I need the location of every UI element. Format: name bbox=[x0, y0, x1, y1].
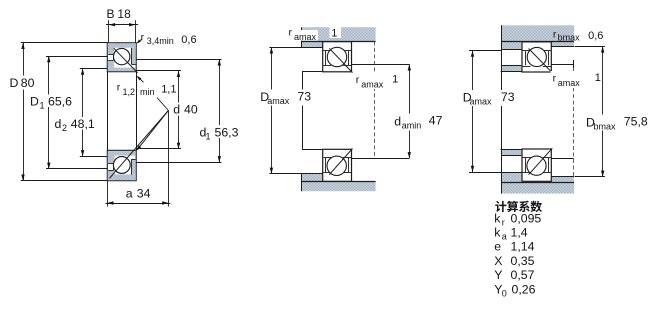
svg-text:B: B bbox=[107, 7, 115, 21]
label d amin 47 bbox=[392, 114, 443, 131]
housing shoulder top bbox=[501, 41, 521, 49]
Db step edge top bbox=[551, 46, 574, 48]
Db top extension bbox=[575, 46, 605, 48]
housing bore line bottom bbox=[501, 182, 574, 184]
ra reference line top bbox=[551, 64, 573, 66]
svg-text:1: 1 bbox=[206, 132, 211, 142]
ball (top) bbox=[114, 48, 130, 64]
svg-text:1: 1 bbox=[392, 73, 398, 85]
svg-text:56,3: 56,3 bbox=[215, 126, 239, 140]
label D 80 bbox=[19, 76, 34, 90]
svg-text:1,14: 1,14 bbox=[511, 240, 535, 254]
svg-text:80: 80 bbox=[21, 76, 35, 90]
svg-text:65,6: 65,6 bbox=[48, 95, 72, 109]
svg-text:r: r bbox=[117, 82, 121, 94]
shaft surface bottom bbox=[302, 149, 323, 151]
wire OD-side vertical bbox=[107, 72, 109, 151]
housing section left edge bbox=[301, 27, 303, 47]
svg-text:X: X bbox=[494, 254, 502, 268]
svg-text:0,35: 0,35 bbox=[511, 254, 535, 268]
svg-text:0,57: 0,57 bbox=[511, 268, 535, 282]
figure 3: abutment dimensions Da, Db, ra, rb (recessed housing shoulder) bbox=[469, 25, 605, 193]
label D amax 73 bbox=[460, 90, 514, 106]
figure 2: abutment dimensions da, Da, ra bbox=[269, 27, 411, 191]
D1 top extension bbox=[46, 56, 107, 58]
ra reference line bottom bbox=[551, 158, 573, 160]
bearing outer+inner ring, top half-section bbox=[107, 43, 136, 72]
svg-text:Y: Y bbox=[494, 268, 502, 282]
svg-text:48,1: 48,1 bbox=[71, 117, 95, 131]
leader r3,4 bbox=[138, 39, 142, 43]
Da top extension bbox=[269, 47, 302, 49]
svg-text:D: D bbox=[10, 76, 19, 90]
contact angle line bbox=[114, 48, 138, 73]
svg-text:18: 18 bbox=[117, 7, 131, 21]
Da shoulder edge top bbox=[501, 49, 521, 51]
tick bbox=[573, 60, 575, 68]
shaft shoulder strip bottom bbox=[502, 149, 522, 156]
svg-text:75,8: 75,8 bbox=[624, 115, 648, 129]
svg-text:0,26: 0,26 bbox=[512, 283, 536, 297]
a extension right / apex vertical bbox=[168, 111, 170, 207]
housing edge dashed line bbox=[374, 41, 376, 158]
Da top extension bbox=[469, 50, 501, 52]
contact line to bottom section bbox=[110, 111, 169, 179]
svg-text:1,1: 1,1 bbox=[161, 83, 176, 95]
svg-text:r: r bbox=[141, 32, 145, 44]
svg-text:0,6: 0,6 bbox=[181, 34, 196, 46]
svg-text:bmax: bmax bbox=[558, 32, 581, 42]
Da bottom extension bbox=[469, 172, 501, 174]
svg-text:r: r bbox=[289, 27, 293, 39]
shaft surface top bbox=[302, 71, 323, 73]
leader 1,1 to apex bbox=[157, 98, 168, 111]
label r amax 1 (housing fillet, top) bbox=[293, 30, 319, 41]
svg-text:1: 1 bbox=[595, 72, 601, 84]
svg-text:d: d bbox=[394, 115, 401, 129]
Da dimension line bbox=[472, 51, 474, 173]
svg-text:amax: amax bbox=[361, 79, 384, 89]
svg-text:1,2 min: 1,2 min bbox=[123, 87, 155, 97]
Da dimension line bbox=[271, 47, 273, 174]
da dimension line bbox=[409, 64, 411, 158]
svg-text:r: r bbox=[502, 218, 505, 228]
calculation factors heading (vector CJK glyphs) bbox=[495, 201, 506, 212]
D top extension bbox=[21, 42, 108, 44]
shaft surface line bottom bbox=[501, 149, 522, 151]
svg-text:r: r bbox=[356, 74, 360, 86]
label d1 56,3 bbox=[213, 125, 242, 138]
B extension right bbox=[135, 20, 137, 43]
svg-text:34: 34 bbox=[137, 187, 151, 201]
svg-text:47: 47 bbox=[429, 114, 443, 128]
d1 dimension line bbox=[219, 59, 221, 162]
svg-text:amax: amax bbox=[267, 96, 290, 106]
shaft shoulder line bottom bbox=[502, 155, 522, 157]
housing section top (light blue) bbox=[302, 27, 376, 41]
d1 bottom extension bbox=[136, 162, 221, 164]
svg-text:1: 1 bbox=[331, 27, 337, 39]
svg-text:amax: amax bbox=[558, 78, 581, 88]
bearing bottom section (outline) bbox=[522, 149, 551, 181]
svg-text:amax: amax bbox=[470, 96, 493, 106]
svg-text:2: 2 bbox=[62, 123, 67, 133]
label r amax 1 bbox=[551, 71, 601, 88]
Da shoulder edge bottom bbox=[501, 172, 521, 174]
housing flange top (light blue) bbox=[501, 25, 574, 41]
ball (bottom) bbox=[113, 157, 130, 174]
svg-text:1,4: 1,4 bbox=[511, 226, 528, 240]
shaft surface line top bbox=[501, 71, 522, 73]
D1 bottom extension bbox=[46, 168, 107, 170]
d2 dimension line bbox=[82, 69, 84, 157]
D dimension line bbox=[23, 43, 25, 181]
Da bottom extension bbox=[269, 173, 302, 175]
d2 bottom extension bbox=[80, 156, 108, 158]
shaft shoulder top bbox=[352, 64, 410, 66]
Db step edge bottom bbox=[551, 176, 574, 178]
label D amax 73 bbox=[259, 90, 312, 106]
contact line to inner-ring corner bbox=[138, 111, 169, 150]
svg-text:3,4min: 3,4min bbox=[147, 36, 174, 46]
shaft end face bbox=[302, 72, 304, 150]
label d 40 bbox=[172, 103, 196, 116]
svg-text:e: e bbox=[494, 240, 501, 254]
figure 1: bearing cross-section with boundary dimensions bbox=[21, 7, 222, 207]
svg-text:r: r bbox=[553, 73, 557, 85]
svg-text:d: d bbox=[55, 117, 62, 131]
housing section bottom (light blue) bbox=[302, 182, 376, 191]
bearing outer+inner ring, bottom half-section bbox=[107, 150, 136, 180]
svg-text:bmax: bmax bbox=[594, 122, 617, 132]
d2 top extension bbox=[80, 68, 108, 70]
svg-text:0: 0 bbox=[502, 289, 507, 299]
d dimension line bbox=[178, 71, 180, 149]
Db dimension line bbox=[602, 46, 604, 176]
svg-text:73: 73 bbox=[297, 90, 311, 104]
d1 top extension bbox=[136, 59, 221, 61]
a dimension line bbox=[106, 203, 171, 205]
housing shoulder edge bbox=[302, 47, 325, 49]
a extension left bbox=[107, 181, 109, 207]
svg-text:amax: amax bbox=[294, 32, 317, 42]
leader r1,2 bbox=[138, 77, 144, 83]
bearing top section (outline) bbox=[522, 42, 551, 72]
d bottom extension bbox=[136, 148, 181, 150]
svg-text:k: k bbox=[494, 226, 501, 240]
B dimension line bbox=[106, 24, 138, 26]
svg-text:1: 1 bbox=[40, 101, 45, 111]
housing/shaft left edge bbox=[501, 25, 503, 193]
shaft shoulder line top bbox=[502, 65, 522, 67]
bearing top section (outline) bbox=[323, 42, 352, 72]
bearing bottom section (outline) bbox=[323, 149, 352, 181]
wire bore-side vertical bbox=[136, 72, 138, 151]
label d2 48,1 bbox=[70, 117, 98, 130]
label r amax 1 (shaft fillet) bbox=[355, 73, 398, 90]
svg-text:r: r bbox=[553, 28, 557, 40]
shaft shoulder strip top bbox=[502, 66, 522, 72]
D1 dimension line bbox=[48, 56, 50, 169]
label D bmax 75,8 bbox=[584, 115, 614, 131]
shaft shoulder bottom bbox=[352, 158, 410, 160]
svg-text:d: d bbox=[173, 103, 180, 117]
B extension left bbox=[108, 20, 110, 43]
housing bore line top bbox=[501, 41, 574, 43]
svg-text:amin: amin bbox=[402, 121, 422, 131]
svg-text:73: 73 bbox=[501, 90, 515, 104]
svg-text:0,095: 0,095 bbox=[511, 212, 542, 226]
housing flange bottom bbox=[501, 182, 574, 194]
svg-text:a: a bbox=[502, 232, 507, 242]
svg-text:a: a bbox=[126, 187, 133, 201]
svg-text:k: k bbox=[494, 212, 501, 226]
dashed housing edge bbox=[573, 68, 575, 177]
svg-text:40: 40 bbox=[184, 103, 198, 117]
svg-text:D: D bbox=[30, 95, 39, 109]
label D1 65,6 bbox=[46, 95, 75, 108]
housing shoulder bottom bbox=[501, 172, 521, 182]
housing bore line bbox=[302, 41, 376, 43]
Db bottom extension bbox=[575, 176, 605, 178]
d top extension bbox=[136, 70, 181, 72]
D bottom extension bbox=[21, 180, 108, 182]
svg-text:0,6: 0,6 bbox=[588, 30, 603, 42]
